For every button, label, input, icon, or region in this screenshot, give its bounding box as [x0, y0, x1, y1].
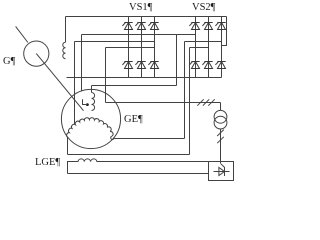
- wire: VS1 column 3: [154, 17, 156, 78]
- wire: VS2 column 3: [221, 17, 223, 78]
- hatch marks on CT line: [197, 99, 214, 105]
- wire: CT primary line: [106, 102, 221, 104]
- wire: CT secondary down: [220, 129, 222, 164]
- wire: VS1 column 2: [141, 17, 143, 78]
- wire: phase line P2 (VS2 part): [185, 41, 222, 43]
- svg-text:VS1¶: VS1¶: [129, 2, 153, 13]
- current transformer circle 1: [214, 110, 227, 123]
- svg-text:G¶: G¶: [3, 56, 16, 67]
- crowbar thyristor: [214, 164, 230, 176]
- junction dot: [86, 103, 89, 106]
- wire: phase line P2 (VS1 part): [75, 41, 155, 43]
- shaft lower segment: [36, 54, 83, 111]
- thyristor VS1 bottom 2: [135, 61, 145, 68]
- thyristor VS1 top 3: [148, 22, 158, 29]
- wire: P1 drop into machine: [81, 35, 83, 91]
- wire: VS1 column 1: [128, 17, 130, 78]
- thyristor VS2 top 2: [202, 22, 212, 29]
- thyristor VS2 top 3: [215, 22, 225, 29]
- svg-text:GE¶: GE¶: [124, 114, 143, 125]
- bus: bottom DC bus: [67, 77, 222, 79]
- wire: phase line P3 (VS1 part): [106, 47, 155, 49]
- wire: inner bottom loop: [114, 138, 185, 140]
- thyristor VS2 bottom 2: [202, 61, 212, 68]
- thyristor VS2 bottom 3: [215, 61, 225, 68]
- inductor LGE with coil: [68, 159, 209, 174]
- current transformer circle 2: [214, 116, 227, 129]
- wire: P3 branch down to outer loop: [189, 48, 191, 155]
- generator G: [24, 41, 49, 66]
- thyristor VS1 top 1: [122, 22, 132, 29]
- stator winding arch: [67, 118, 113, 138]
- wire: VS2 column 1: [195, 17, 197, 78]
- wire: top DC bus: [66, 16, 227, 18]
- wire: phase line P3 (VS2 part): [190, 47, 209, 49]
- inductor: exciter field coil: [63, 42, 66, 59]
- wire: P2 branch down to inner loop: [184, 42, 186, 139]
- wire: bus right drop to VS2 column 3: [222, 17, 227, 46]
- wire: phase line P1: [82, 34, 196, 36]
- wire: CT drop: [220, 103, 222, 111]
- wire: loop return line: [92, 85, 177, 87]
- wire: P3 drop to stator tap: [105, 48, 107, 103]
- crowbar box: [209, 162, 234, 181]
- wire: P1 branch down at x176: [176, 35, 178, 86]
- shaft upper segment: [16, 26, 28, 42]
- hatch marks on secondary: [217, 130, 224, 144]
- thyristor VS1 top 2: [135, 22, 145, 29]
- wire: VS2 column 2: [208, 17, 210, 78]
- wire: field bottom: [68, 173, 209, 175]
- wire: P2 drop into machine: [74, 42, 76, 125]
- wire: outer loop left riser: [67, 137, 69, 154]
- wire: outer bottom loop: [68, 154, 190, 156]
- stator winding end curl: [111, 136, 114, 139]
- svg-text:VS2¶: VS2¶: [192, 2, 216, 13]
- rotor coil: [92, 93, 95, 111]
- thyristor VS1 bottom 3: [148, 61, 158, 68]
- wire: left drop from top bus: [65, 17, 67, 43]
- svg-text:LGE¶: LGE¶: [35, 157, 60, 168]
- thyristor VS2 bottom 1: [189, 61, 199, 68]
- thyristor VS2 top 1: [189, 22, 199, 29]
- wire: brush lead: [83, 99, 88, 104]
- thyristor VS1 bottom 1: [122, 61, 132, 68]
- wire: rotor lead drop: [91, 86, 93, 93]
- machine GE circle: [61, 89, 120, 148]
